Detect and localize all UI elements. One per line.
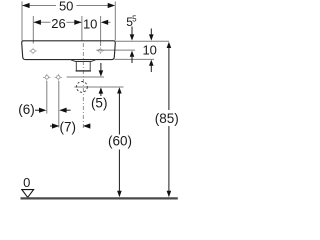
- svg-text:0: 0: [23, 175, 30, 190]
- svg-text:(7): (7): [60, 120, 77, 135]
- svg-text:(5): (5): [91, 96, 108, 111]
- svg-text:(85): (85): [155, 111, 179, 126]
- svg-text:10: 10: [142, 42, 156, 57]
- svg-text:(6): (6): [18, 102, 35, 117]
- svg-text:10: 10: [83, 16, 97, 31]
- svg-text:26: 26: [51, 16, 65, 31]
- svg-text:50: 50: [59, 0, 73, 14]
- svg-text:5: 5: [132, 15, 137, 24]
- svg-text:(60): (60): [108, 133, 132, 148]
